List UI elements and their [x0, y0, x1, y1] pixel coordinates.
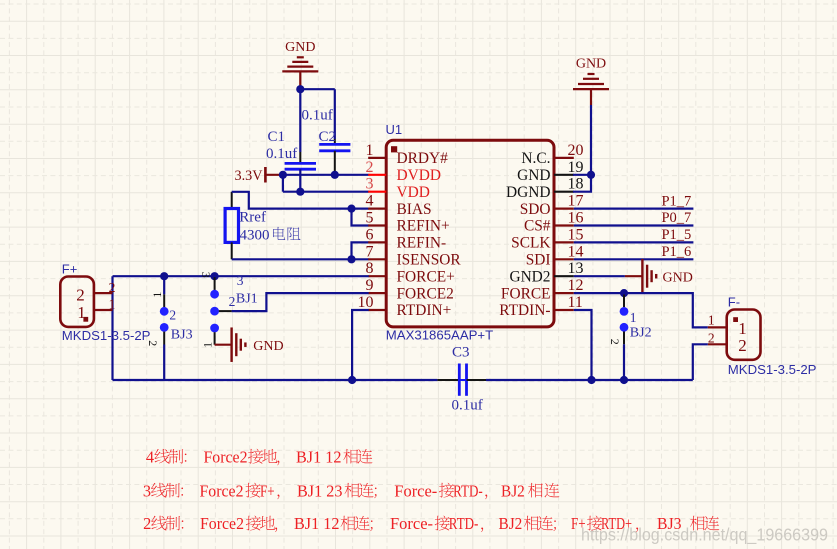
svg-text:F-: F- — [728, 294, 740, 309]
svg-text:F+: F+ — [571, 514, 586, 533]
note 2-wire config — [143, 514, 719, 533]
svg-text:N.C.: N.C. — [521, 150, 550, 167]
svg-text:11: 11 — [568, 294, 583, 311]
note 3-wire config — [143, 481, 559, 500]
svg-text:BJ1 23: BJ1 23 — [297, 481, 343, 500]
pin 7 ISENSOR — [366, 243, 462, 268]
junction GND/C1/C2 — [296, 85, 304, 93]
svg-text:REFIN+: REFIN+ — [397, 218, 450, 235]
jumper BJ1 (3-pin) — [199, 272, 232, 348]
pin 4 BIAS — [366, 193, 432, 218]
junction RTDIN-/RTD- rail — [587, 376, 595, 384]
svg-text:1: 1 — [708, 312, 715, 327]
pin 17 SDO — [520, 193, 584, 218]
svg-text:3: 3 — [199, 272, 213, 278]
svg-text:Force-: Force- — [390, 514, 433, 533]
svg-text:FORCE2: FORCE2 — [397, 285, 454, 302]
svg-text:DGND: DGND — [506, 184, 550, 201]
wire GND net to C1 — [299, 89, 301, 152]
svg-text:GND: GND — [285, 40, 315, 55]
svg-text:12: 12 — [568, 277, 584, 294]
wire pin19 link — [573, 174, 591, 176]
svg-text:MKDS1-3.5-2P: MKDS1-3.5-2P — [62, 328, 151, 343]
power port GND (top, over C1/C2) — [282, 40, 318, 89]
pin 20 N.C. — [521, 142, 583, 167]
wire RTD- rail (bottom, left of C3) — [113, 379, 438, 381]
svg-text:13: 13 — [568, 260, 584, 277]
svg-text:3: 3 — [237, 273, 244, 288]
svg-text:6: 6 — [366, 226, 374, 243]
jumper BJ3 — [146, 292, 169, 347]
pin 13 GND2 — [509, 260, 583, 285]
note 4-wire config — [146, 447, 373, 466]
svg-text:DVDD: DVDD — [397, 167, 441, 184]
svg-text:2: 2 — [169, 308, 176, 323]
pin 2 DVDD — [366, 159, 441, 184]
svg-text:14: 14 — [568, 243, 584, 260]
wire BJ3 pin2 down to RTD- rail — [163, 345, 165, 381]
wire Rref bottom to ISENSOR (pin7) — [232, 258, 369, 260]
svg-text:P0_7: P0_7 — [661, 210, 691, 226]
svg-text:2: 2 — [608, 339, 622, 345]
junction 3.3V node — [279, 171, 287, 179]
svg-text:VDD: VDD — [397, 184, 430, 201]
junction BIAS/REFIN+ — [347, 205, 355, 213]
pin 16 CS# — [524, 210, 584, 235]
power ground bar symbol (BJ1 pin1) — [215, 327, 284, 362]
wire P1_5 (pin 15) — [574, 241, 694, 243]
svg-text:RTDIN-: RTDIN- — [499, 302, 550, 319]
wire GND2 (pin13) to ground — [574, 275, 625, 277]
svg-text:BJ2: BJ2 — [499, 514, 523, 533]
value 4300 resistor label — [240, 227, 301, 243]
svg-text:BJ1: BJ1 — [236, 292, 258, 307]
junction C1/VDD rail — [296, 188, 304, 196]
wire P0_7 (pin 16) — [574, 224, 694, 226]
wire 3.3V down to VDD rail — [282, 175, 284, 192]
pin 8 FORCE+ — [366, 260, 455, 285]
pin 10 RTDIN+ — [358, 294, 452, 319]
pin 9 FORCE2 — [366, 277, 454, 302]
pin 14 SDI — [526, 243, 584, 268]
svg-text:Force2: Force2 — [200, 481, 244, 500]
capacitor C3 0.1uf — [437, 364, 486, 396]
junction REFIN-/ISENSOR — [347, 255, 355, 263]
svg-text:1: 1 — [366, 142, 374, 159]
svg-text:2: 2 — [738, 336, 747, 355]
svg-text:GND: GND — [663, 270, 693, 285]
junction C2/DVDD wire — [331, 171, 339, 179]
part marker square U1 — [391, 146, 397, 152]
wire GND to pin19 — [590, 105, 592, 175]
wire RTDIN+ (pin10) down to rail — [352, 310, 369, 380]
svg-text:19: 19 — [568, 159, 584, 176]
svg-text:2: 2 — [229, 294, 236, 309]
svg-text:3: 3 — [366, 176, 374, 193]
junction FORCE+/BJ1 — [211, 272, 219, 280]
svg-text:MAX31865AAP+T: MAX31865AAP+T — [386, 328, 493, 343]
svg-text:Rref: Rref — [239, 210, 266, 226]
svg-text:16: 16 — [568, 210, 584, 227]
svg-text:BJ3: BJ3 — [657, 514, 682, 533]
svg-text:0.1uf: 0.1uf — [266, 146, 297, 162]
wire BJ2 pin1 up to FORCE wire — [623, 293, 625, 294]
svg-text:GND: GND — [517, 167, 550, 184]
IC U1 MAX31865AAP+T body — [386, 140, 554, 327]
svg-text:GND2: GND2 — [509, 268, 550, 285]
junction FORCE/BJ2 — [620, 289, 628, 297]
svg-text:9: 9 — [366, 277, 374, 294]
svg-text:FORCE: FORCE — [501, 285, 551, 302]
svg-text:0.1uf: 0.1uf — [302, 108, 333, 124]
svg-text:GND: GND — [576, 57, 606, 72]
svg-text:4: 4 — [146, 447, 154, 466]
pin 6 REFIN- — [366, 226, 447, 251]
svg-text:Force2: Force2 — [200, 514, 244, 533]
svg-text:MKDS1-3.5-2P: MKDS1-3.5-2P — [728, 362, 817, 377]
junction BJ2/rail — [620, 376, 628, 384]
svg-text:1: 1 — [630, 310, 637, 325]
pin 18 DGND — [506, 176, 583, 201]
wire 3.3V to DVDD (pin2) — [283, 174, 369, 176]
svg-text:C1: C1 — [268, 129, 286, 145]
svg-text:2: 2 — [143, 514, 151, 533]
svg-text:FORCE+: FORCE+ — [397, 268, 455, 285]
svg-text:Force2: Force2 — [204, 447, 248, 466]
wire GND to pin18 — [573, 175, 591, 192]
pin 3 VDD — [366, 176, 430, 201]
svg-text:U1: U1 — [386, 122, 403, 137]
wire BJ3 pin1 up to FORCE+ wire — [163, 276, 165, 294]
svg-text:RTD-: RTD- — [453, 481, 483, 500]
wire Rref top to BIAS (pin4) — [232, 192, 369, 209]
svg-text:17: 17 — [568, 193, 584, 210]
pin 11 RTDIN- — [499, 294, 583, 319]
svg-text:GND: GND — [253, 339, 283, 354]
svg-text:BJ1 12: BJ1 12 — [294, 514, 340, 533]
pin 19 GND — [517, 159, 583, 184]
svg-text:1: 1 — [109, 296, 116, 311]
svg-text:F+: F+ — [260, 481, 275, 500]
svg-text:1: 1 — [201, 342, 215, 348]
svg-text:2: 2 — [146, 340, 160, 346]
svg-text:C2: C2 — [319, 129, 337, 145]
svg-text:7: 7 — [366, 243, 374, 260]
svg-text:10: 10 — [358, 294, 374, 311]
svg-text:BJ2: BJ2 — [501, 481, 525, 500]
wire FORCE+ (pin8) to F+ — [113, 275, 369, 277]
svg-text:2: 2 — [76, 286, 85, 305]
svg-text:P1_7: P1_7 — [661, 193, 691, 209]
junction RTDIN+/rail — [348, 376, 356, 384]
wire RTD- rail (bottom, right of C3) — [486, 379, 693, 381]
svg-text:BJ1 12: BJ1 12 — [296, 447, 342, 466]
jumper BJ2 — [608, 295, 629, 345]
svg-text:C3: C3 — [452, 345, 470, 361]
svg-text:RTD-: RTD- — [449, 514, 479, 533]
capacitor C1 0.1uf — [285, 152, 316, 169]
resistor Rref 4300 — [225, 192, 238, 259]
svg-text:0.1uf: 0.1uf — [452, 398, 483, 414]
svg-text:BJ3: BJ3 — [171, 328, 193, 343]
svg-text:SCLK: SCLK — [511, 235, 550, 252]
power ground bar symbol (pin 13) — [625, 259, 693, 294]
junction pin19 GND — [587, 171, 595, 179]
power port 3.3V — [235, 167, 283, 184]
svg-text:P1_5: P1_5 — [661, 227, 691, 243]
svg-text:3: 3 — [143, 481, 151, 500]
connector F- MKDS1-3.5-2P — [708, 310, 761, 360]
wire P1_7 (pin 17) — [574, 208, 694, 210]
wire VDD rail to pin3 — [283, 191, 369, 193]
svg-text:DRDY#: DRDY# — [397, 150, 449, 167]
svg-text:15: 15 — [568, 226, 584, 243]
svg-text:2: 2 — [708, 330, 715, 345]
svg-text:P1_6: P1_6 — [661, 244, 691, 260]
svg-text:4: 4 — [366, 193, 374, 210]
svg-text:20: 20 — [568, 142, 584, 159]
svg-text:SDI: SDI — [526, 252, 551, 269]
svg-text:2: 2 — [109, 280, 116, 295]
wire F+ vertical net — [111, 276, 113, 380]
svg-text:RTDIN+: RTDIN+ — [397, 302, 452, 319]
pin 15 SCLK — [511, 226, 583, 251]
wire RTDIN- (pin11) down to RTD- rail — [574, 310, 592, 380]
svg-text:RTD+: RTD+ — [601, 514, 632, 533]
svg-text:3.3V: 3.3V — [235, 168, 264, 184]
wire P1_6 (pin 14) — [574, 258, 694, 260]
capacitor C2 0.1uf — [319, 139, 350, 175]
pin 5 REFIN+ — [366, 210, 450, 235]
wire F- pin2 to RTD- rail — [693, 344, 708, 380]
svg-text:8: 8 — [366, 260, 374, 277]
svg-text:ISENSOR: ISENSOR — [397, 252, 462, 269]
svg-text:BIAS: BIAS — [397, 201, 432, 218]
wire REFIN- (pin6) branch — [352, 242, 369, 259]
svg-text:1: 1 — [150, 292, 164, 298]
pin 12 FORCE — [501, 277, 584, 302]
wire FORCE (pin12) to F- pin 1 — [574, 293, 708, 327]
svg-text:2: 2 — [366, 159, 374, 176]
wire GND net to C2 — [300, 89, 335, 139]
svg-text:5: 5 — [366, 210, 374, 227]
wire C1 to VDD rail — [299, 169, 301, 192]
svg-text:CS#: CS# — [524, 218, 551, 235]
svg-text:REFIN-: REFIN- — [397, 235, 447, 252]
svg-text:Force-: Force- — [394, 481, 437, 500]
svg-text:SDO: SDO — [520, 201, 551, 218]
wire REFIN+ (pin5) branch — [352, 209, 369, 226]
power port GND (top right, pins 18/19) — [573, 57, 609, 106]
connector F+ MKDS1-3.5-2P — [60, 277, 115, 327]
junction FORCE+/BJ3 — [160, 272, 168, 280]
svg-text:F+: F+ — [62, 262, 78, 277]
wire BJ2 pin2 down to RTD- rail — [623, 344, 625, 380]
pin 1 DRDY# — [366, 142, 449, 167]
svg-text:BJ2: BJ2 — [630, 325, 652, 340]
svg-text:4300: 4300 — [240, 227, 270, 243]
wire FORCE2 (pin9) from BJ1 pin2 — [232, 293, 369, 311]
svg-text:18: 18 — [568, 176, 584, 193]
